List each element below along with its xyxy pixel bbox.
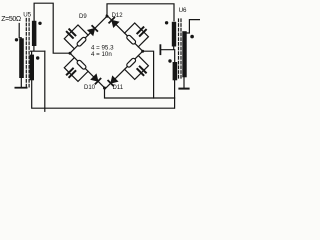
svg-text:U5: U5 [23, 11, 31, 18]
wire right vertex drop [143, 51, 154, 98]
transformer U5 secondary upper half [32, 21, 37, 46]
node dot T1 primary polarity [15, 38, 18, 41]
transformer U6 core [178, 19, 180, 80]
arm lower-right: R4 C4 D11 [102, 49, 155, 102]
svg-text:D10: D10 [84, 85, 96, 91]
wire bottom apex riser and rail to T2 secondary bottom [105, 88, 175, 98]
svg-text:D12: D12 [112, 13, 124, 19]
resistor R3 body [76, 59, 86, 69]
wire arm axis [106, 15, 142, 51]
ground T2 center tap [159, 45, 161, 54]
wire T1 secondary top over to left vertex [34, 3, 70, 53]
node dot T1 secondary lower polarity [36, 56, 39, 59]
wire RC parallel loop [125, 56, 149, 80]
transformer U6 secondary upper half [172, 22, 176, 47]
wire T1 primary bottom [20, 78, 22, 87]
ground T2 primary [179, 88, 188, 90]
wire RC parallel loop [64, 25, 88, 49]
transformer U5 primary winding [19, 38, 24, 78]
diode D11 [109, 77, 118, 86]
wire T1 secondary bottom to bottom rail [32, 80, 174, 108]
svg-text:D9: D9 [79, 14, 87, 20]
wire RC parallel loop [64, 58, 88, 82]
wire T2 primary bottom [183, 77, 185, 88]
resistor R1 body [76, 36, 86, 46]
svg-text:4 = 10n: 4 = 10n [91, 51, 112, 58]
wire T1 center tap drop [44, 51, 46, 111]
resistor R4 body [126, 57, 136, 67]
capacitor C3 plates [67, 69, 76, 78]
diode D9 [88, 26, 97, 35]
transformer U6 primary winding [182, 31, 186, 77]
transformer U5 core [25, 19, 27, 88]
wire input stub to T1 primary [19, 24, 21, 39]
node top apex [106, 15, 109, 18]
arm lower-left: R3 C3 D10 [58, 51, 108, 101]
node dot T2 secondary lower polarity [168, 59, 171, 62]
capacitor C4 plates [137, 67, 146, 76]
arm upper-left: R1 C1 D9 [58, 4, 110, 56]
svg-text:D11: D11 [113, 85, 124, 91]
diode D10 [91, 75, 100, 84]
node right vertex [141, 50, 144, 53]
wire T2 primary top from right edge [185, 20, 201, 33]
wire arm axis [70, 16, 107, 53]
wire T2 center tap bus [160, 47, 174, 63]
resistor R2 body [126, 34, 136, 44]
node dot T2 primary polarity [190, 35, 194, 39]
transformer U6 secondary lower half [173, 62, 178, 80]
wire RC parallel loop [125, 23, 149, 47]
svg-text:Z=50Ω: Z=50Ω [1, 16, 21, 23]
wire T1 center tap bus [31, 46, 45, 55]
svg-text:U6: U6 [179, 7, 187, 14]
capacitor C1 plates [67, 29, 76, 38]
transformer U5 secondary lower half [30, 55, 34, 81]
capacitor C2 plates [137, 27, 146, 36]
node bottom apex [103, 87, 106, 90]
wire arm axis [105, 51, 143, 89]
ground T1 primary [15, 87, 26, 89]
arm upper-right: R2 C2 D12 [104, 3, 155, 54]
wire T2 secondary bottom junction column [174, 80, 176, 108]
diode D12 [110, 18, 119, 27]
node left vertex [69, 52, 72, 55]
node dot T2 secondary upper polarity [165, 21, 168, 24]
node dot T1 secondary upper polarity [38, 22, 41, 25]
wire top apex riser and top rail to T2 [107, 4, 174, 21]
wire arm axis [70, 53, 105, 88]
